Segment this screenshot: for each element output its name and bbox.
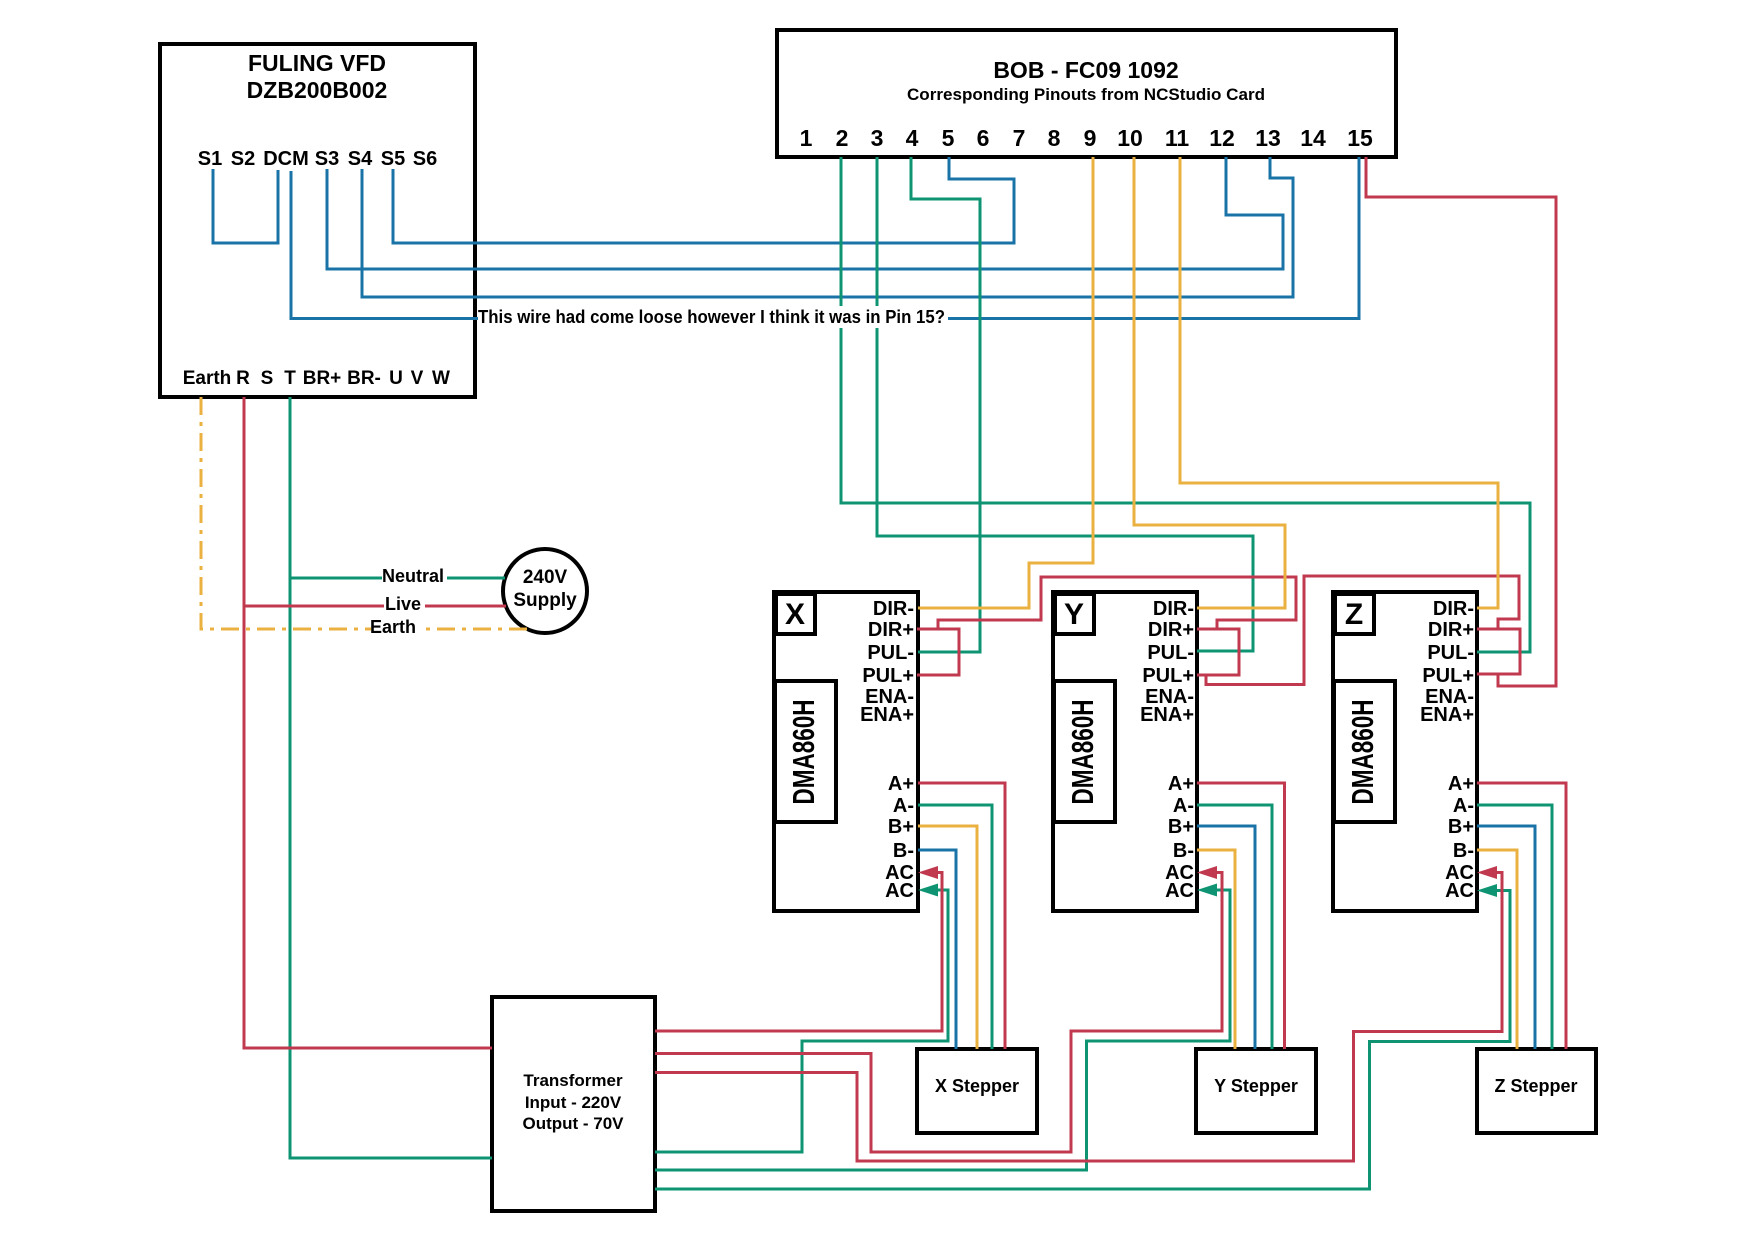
svg-text:Earth: Earth [183, 368, 232, 389]
label backing Live [384, 593, 425, 613]
svg-text:Transformer: Transformer [523, 1071, 623, 1090]
driver Y label sub-box [1055, 594, 1094, 634]
wire red Z driver PUL+ to BOB pin 15 [1366, 157, 1556, 686]
svg-text:PUL+: PUL+ [1422, 665, 1474, 687]
svg-text:11: 11 [1165, 125, 1190, 151]
svg-text:BOB - FC09 1092: BOB - FC09 1092 [993, 57, 1178, 83]
svg-text:AC: AC [1165, 880, 1194, 902]
wire red transformer to Z driver AC1 [655, 873, 1502, 1162]
svg-text:B+: B+ [1448, 816, 1474, 838]
BOB box FC09 1092 breakout board [777, 30, 1396, 157]
svg-text:B-: B- [1453, 840, 1474, 862]
wire green transformer to Y driver AC2 [655, 890, 1230, 1170]
wire green VFD T to transformer input [290, 397, 492, 1158]
svg-text:BR-: BR- [347, 368, 381, 389]
svg-text:This wire had come loose howev: This wire had come loose however I think… [478, 307, 945, 327]
svg-text:B-: B- [1173, 840, 1194, 862]
arrowhead red Y AC1 [1197, 866, 1217, 879]
wire red Z driver PUL+ DIR+ jumper [1477, 629, 1520, 674]
svg-text:R: R [236, 368, 250, 389]
svg-text:S1: S1 [198, 148, 222, 170]
svg-text:DIR-: DIR- [1433, 598, 1474, 620]
svg-text:A-: A- [1173, 795, 1194, 817]
svg-text:U: U [389, 368, 403, 389]
wire yellow X driver B+ to X stepper [918, 826, 977, 1049]
svg-text:240V: 240V [523, 567, 568, 588]
wire red Y driver PUL+ feed to Z driver DIR+ [1206, 576, 1519, 685]
wire yellow Y driver B- to Y stepper [1197, 850, 1235, 1049]
svg-text:12: 12 [1209, 125, 1235, 151]
wire red transformer to X driver AC1 [655, 873, 942, 1032]
svg-text:9: 9 [1084, 125, 1097, 151]
driver X main box DMA860H [774, 592, 918, 911]
svg-text:7: 7 [1013, 125, 1026, 151]
wire yellow BOB pin 9 to X driver DIR- [918, 157, 1093, 608]
wire yellow BOB pin 10 to Y driver DIR- [1134, 157, 1285, 608]
svg-text:PUL+: PUL+ [1142, 665, 1194, 687]
svg-text:PUL-: PUL- [867, 642, 914, 664]
svg-text:Z: Z [1345, 598, 1363, 631]
svg-text:S2: S2 [231, 148, 255, 170]
svg-text:DMA860H: DMA860H [1345, 700, 1380, 805]
wire blue S5 to BOB pin 5 [393, 157, 1014, 243]
wire red VFD R to transformer input [244, 397, 492, 1048]
svg-text:A+: A+ [1168, 773, 1194, 795]
wire red Y driver A+ to Y stepper [1197, 783, 1285, 1049]
svg-text:FULING VFD: FULING VFD [248, 50, 386, 76]
wire red X driver PUL+ DIR+ jumper [917, 629, 959, 675]
svg-text:B-: B- [893, 840, 914, 862]
wire blue Y driver B+ to Y stepper [1197, 826, 1255, 1049]
svg-text:14: 14 [1300, 125, 1326, 151]
svg-text:X: X [785, 598, 805, 631]
svg-text:6: 6 [977, 125, 990, 151]
svg-text:T: T [284, 368, 296, 389]
svg-text:Corresponding Pinouts from NCS: Corresponding Pinouts from NCStudio Card [907, 85, 1265, 104]
label backing Earth [371, 616, 419, 636]
driver X DMA860H sub-box [775, 681, 836, 822]
wire green BOB pin 3 to Y driver PUL- [877, 157, 1253, 651]
svg-text:PUL-: PUL- [1147, 642, 1194, 664]
svg-text:DIR+: DIR+ [1148, 619, 1194, 641]
Z Stepper motor box [1477, 1049, 1596, 1133]
svg-text:Y: Y [1064, 598, 1084, 631]
svg-text:10: 10 [1117, 125, 1143, 151]
svg-text:Supply: Supply [513, 590, 577, 611]
svg-text:1: 1 [800, 125, 813, 151]
wire yellow Z driver B- to Z stepper [1477, 850, 1517, 1049]
arrowhead green X AC2 [918, 884, 938, 897]
svg-text:DIR+: DIR+ [868, 619, 914, 641]
wire green transformer to X driver AC2 [655, 890, 948, 1152]
svg-text:Z Stepper: Z Stepper [1494, 1076, 1577, 1096]
wire blue Z driver B+ to Z stepper [1477, 826, 1535, 1049]
svg-text:W: W [432, 368, 450, 389]
svg-text:S6: S6 [413, 148, 437, 170]
wire yellow dashed Earth from VFD to 240V supply [201, 397, 529, 629]
svg-text:ENA+: ENA+ [1420, 704, 1474, 726]
wire blue DCM to BOB pin 15 [291, 157, 1359, 319]
svg-text:DCM: DCM [263, 148, 309, 170]
svg-text:DIR-: DIR- [873, 598, 914, 620]
wire red transformer to Y driver AC1 [655, 873, 1222, 1153]
wire blue S4 to BOB pin 13 [362, 157, 1293, 297]
svg-text:4: 4 [906, 125, 919, 151]
note label white backing [478, 306, 948, 328]
wire red X driver DIR+ feed to Y driver DIR+ [938, 577, 1296, 629]
X Stepper motor box [917, 1049, 1037, 1133]
driver Y DMA860H sub-box [1054, 681, 1115, 822]
Y Stepper motor box [1196, 1049, 1316, 1133]
wire blue X driver B- to X stepper [918, 850, 956, 1049]
svg-text:DMA860H: DMA860H [1065, 700, 1100, 805]
240V supply source circle [503, 549, 587, 633]
svg-text:Input - 220V: Input - 220V [525, 1093, 622, 1112]
wire green Neutral to 240V supply [290, 577, 505, 580]
wire blue S3 to BOB pin 12 [327, 157, 1283, 269]
driver Z label sub-box [1335, 594, 1374, 634]
transformer T1 box [492, 997, 655, 1211]
VFD box U1 FULING VFD DZB200B002 [160, 44, 475, 397]
svg-text:DMA860H: DMA860H [786, 700, 821, 805]
svg-text:B+: B+ [888, 816, 914, 838]
arrowhead green Z AC2 [1477, 884, 1497, 897]
svg-text:Neutral: Neutral [382, 566, 444, 586]
wire green transformer to Z driver AC2 [655, 891, 1510, 1190]
svg-text:5: 5 [942, 125, 955, 151]
wire red Y driver PUL+ DIR+ jumper [1197, 629, 1239, 675]
svg-text:8: 8 [1048, 125, 1061, 151]
svg-text:X Stepper: X Stepper [935, 1076, 1019, 1096]
svg-text:AC: AC [1445, 880, 1474, 902]
svg-text:PUL+: PUL+ [862, 665, 914, 687]
wire green BOB pin 2 to Z driver PUL- [841, 157, 1530, 652]
driver Z DMA860H sub-box [1334, 681, 1395, 822]
arrowhead green Y AC2 [1197, 884, 1217, 897]
svg-text:B+: B+ [1168, 816, 1194, 838]
wire blue jumper S1 to DCM [213, 169, 278, 243]
svg-text:PUL-: PUL- [1427, 642, 1474, 664]
wire red Live to 240V supply [244, 605, 506, 608]
wire green Y driver A- to Y stepper [1197, 805, 1272, 1049]
svg-text:A-: A- [1453, 795, 1474, 817]
svg-text:A+: A+ [888, 773, 914, 795]
svg-text:S4: S4 [348, 148, 373, 170]
svg-text:S5: S5 [381, 148, 405, 170]
svg-text:Output - 70V: Output - 70V [522, 1114, 624, 1133]
svg-text:S: S [261, 368, 274, 389]
arrowhead red Z AC1 [1477, 866, 1497, 879]
svg-text:3: 3 [871, 125, 884, 151]
svg-text:AC: AC [885, 880, 914, 902]
svg-text:S3: S3 [315, 148, 339, 170]
svg-text:Live: Live [385, 594, 421, 614]
svg-text:A+: A+ [1448, 773, 1474, 795]
wire red Z driver A+ to Z stepper [1477, 783, 1566, 1049]
driver X label sub-box [776, 594, 815, 634]
svg-text:DIR+: DIR+ [1428, 619, 1474, 641]
wire green Z driver A- to Z stepper [1477, 805, 1552, 1049]
svg-text:Earth: Earth [370, 617, 416, 637]
wire green X driver A- to X stepper [918, 805, 992, 1049]
arrowhead red X AC1 [918, 866, 938, 879]
driver Y main box DMA860H [1053, 592, 1197, 911]
svg-text:V: V [411, 368, 424, 389]
svg-text:13: 13 [1255, 125, 1281, 151]
driver Z main box DMA860H [1333, 592, 1477, 911]
wire green BOB pin 4 to X driver PUL- [911, 157, 980, 652]
svg-text:BR+: BR+ [303, 368, 342, 389]
svg-text:Y Stepper: Y Stepper [1214, 1076, 1298, 1096]
wire yellow BOB pin 11 to Z driver DIR- [1180, 157, 1498, 608]
svg-text:A-: A- [893, 795, 914, 817]
svg-text:DZB200B002: DZB200B002 [247, 77, 388, 103]
label backing Neutral [382, 565, 447, 585]
svg-text:ENA+: ENA+ [1140, 704, 1194, 726]
svg-text:15: 15 [1347, 125, 1373, 151]
wire red X driver A+ to X stepper [918, 783, 1005, 1049]
svg-text:DIR-: DIR- [1153, 598, 1194, 620]
svg-text:2: 2 [836, 125, 849, 151]
svg-text:ENA+: ENA+ [860, 704, 914, 726]
